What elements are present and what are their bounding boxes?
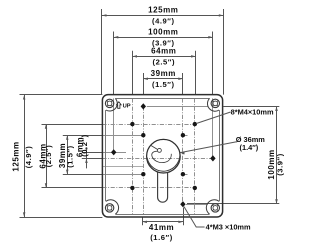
dim 39mm top: extension lines: [143, 73, 145, 95]
dim 125mm left: extension lines: [20, 94, 103, 96]
svg-text:64mm: 64mm: [151, 47, 176, 56]
row line B: [102, 135, 143, 137]
spiral outer wrap (crescent): [147, 152, 180, 171]
dim 125mm top: extension lines: [101, 9, 103, 95]
M3 hole diamond bottom: [180, 201, 185, 207]
M4 hole dot row E left: [141, 172, 145, 176]
M4 hole dot row F right: [193, 186, 197, 190]
svg-text:(1.5″): (1.5″): [152, 80, 175, 89]
row line M4 bottom: [186, 204, 208, 206]
svg-text:4*M3 ×10mm: 4*M3 ×10mm: [206, 223, 251, 232]
dim 39mm top: dimension line: [143, 78, 183, 80]
centerline col 64L: [132, 98, 134, 214]
corner screw bottom-right: [211, 204, 219, 212]
box lid seam (inner outline): [116, 98, 210, 100]
M4 hole dot row A left: [130, 122, 134, 126]
dim 64mm left: extension lines: [42, 124, 103, 126]
dim 41mm bottom: dimension line: [142, 221, 183, 223]
dim 125mm left: dimension line: [24, 95, 26, 217]
dim 41mm bottom: extension lines: [142, 218, 144, 226]
row line D long: [102, 158, 212, 160]
row line B stub right: [183, 135, 188, 137]
svg-text:UP: UP: [123, 104, 131, 110]
svg-text:(1.4″): (1.4″): [240, 143, 259, 152]
svg-text:39mm: 39mm: [151, 69, 176, 78]
M3 hole diamond top: [141, 103, 146, 109]
svg-text:125mm: 125mm: [148, 6, 178, 15]
centerline col 39L: [143, 106, 145, 214]
corner pod arc top-left: [106, 98, 117, 111]
svg-text:41mm: 41mm: [149, 223, 174, 232]
extension col 100R: [212, 98, 214, 158]
dim 100mm top: extension lines: [113, 32, 115, 95]
svg-text:(4.9″): (4.9″): [152, 16, 175, 25]
M4 hole dot row B left: [141, 133, 145, 137]
corner screw bottom-left: [105, 204, 113, 212]
row line side stub left: [102, 166, 143, 168]
cable gland small circle: [157, 148, 161, 152]
row line A: [102, 124, 194, 126]
svg-text:(1.6″): (1.6″): [150, 233, 173, 242]
dim 64mm top: dimension line: [132, 56, 195, 58]
svg-text:100mm: 100mm: [148, 27, 178, 36]
leader Ø36: [180, 142, 236, 153]
M4 hole dot row B right: [181, 133, 185, 137]
M3 hole diamond left: [111, 149, 116, 155]
dim 100mm top: dimension line: [114, 37, 213, 39]
row line E stub right: [183, 174, 188, 176]
M4 hole dot row F left: [130, 186, 134, 190]
svg-text:125mm: 125mm: [12, 141, 21, 171]
dim 64mm top: extension lines: [132, 51, 134, 95]
dim 64mm left: dimension line: [46, 124, 48, 188]
M4 hole dot row A right: [193, 122, 197, 126]
svg-text:(2.5″): (2.5″): [153, 58, 176, 67]
dim 6mm left: dimension line w/ outside arrows: [86, 151, 88, 169]
leader 4*M3: [184, 207, 205, 227]
dim 39mm left: extension lines: [63, 135, 103, 137]
svg-text:(1.5″): (1.5″): [65, 145, 74, 168]
dim 6mm left: extension lines: [82, 152, 103, 154]
centerline col 39R: [182, 98, 184, 204]
M3 hole diamond right: [210, 155, 215, 161]
dim 100mm right: extension lines: [223, 106, 279, 108]
svg-text:(4.9″): (4.9″): [24, 146, 33, 169]
corner pod arc top-right: [207, 98, 219, 111]
central hole circle (Ø36mm): [147, 139, 181, 173]
svg-text:(3.9″): (3.9″): [276, 153, 285, 176]
svg-text:8*M4×10mm: 8*M4×10mm: [231, 108, 274, 117]
centerline col 64R: [194, 98, 196, 214]
svg-text:(0.2″): (0.2″): [80, 134, 89, 157]
row line M4 top: [147, 106, 208, 108]
radial line into gland: [151, 145, 158, 149]
row line C: [102, 152, 126, 154]
row line E: [102, 174, 143, 176]
dim 125mm top: dimension line: [102, 15, 223, 17]
corner pod arc bottom-right: [206, 200, 219, 214]
corner pod arc bottom-left: [106, 200, 119, 214]
dim 100mm right: dimension line: [276, 106, 278, 203]
M4 hole dot row E right: [181, 172, 185, 176]
corner screw top-right: [211, 99, 219, 107]
leader 8*M4: [196, 112, 230, 124]
UP arrow glyph: [117, 102, 122, 109]
svg-text:(2.5″): (2.5″): [44, 145, 53, 168]
extension col 100L: [113, 98, 115, 152]
dim 39mm left: dimension line: [67, 135, 69, 174]
corner screw top-left: [105, 99, 113, 107]
junction box outer outline: [102, 95, 222, 217]
spiral inner wrap: [152, 151, 172, 162]
row line F: [102, 187, 194, 189]
cable slot below circle: [158, 172, 168, 202]
